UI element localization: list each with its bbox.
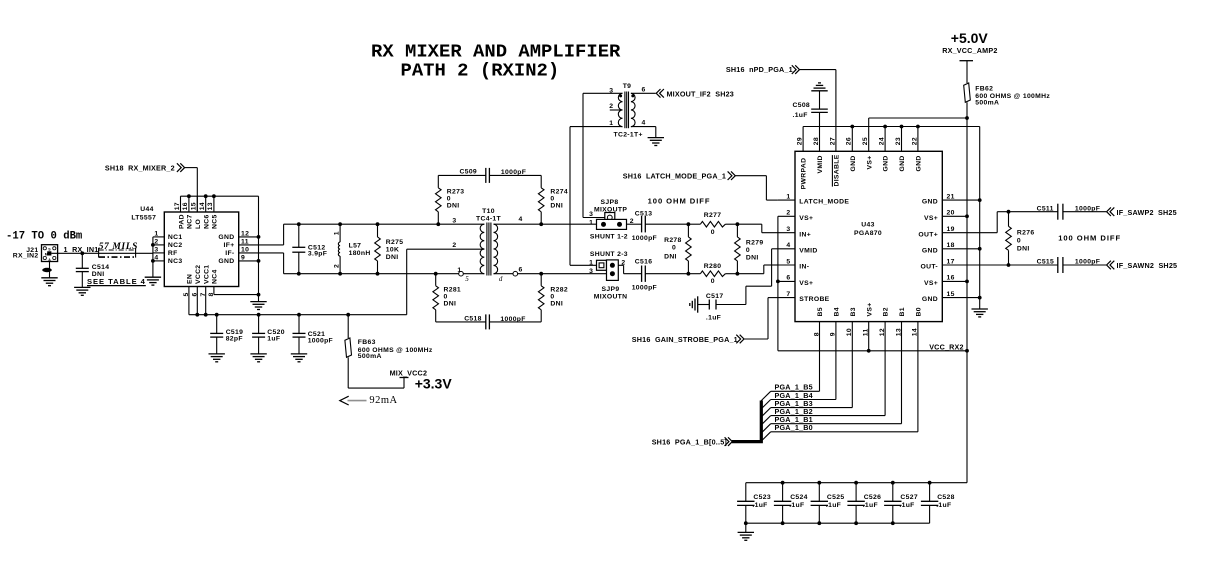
wire IF- jog <box>283 253 285 274</box>
U43 top pin numbers <box>797 137 919 145</box>
C521 label <box>308 331 333 345</box>
svg-text:NC3: NC3 <box>168 258 183 265</box>
svg-text:0: 0 <box>1017 238 1021 245</box>
junction vcc right <box>965 349 969 353</box>
ground at U43 right <box>972 309 988 317</box>
capacitor C526 <box>847 483 864 524</box>
svg-text:5: 5 <box>465 275 469 283</box>
net label PGA_1_B3 <box>775 399 813 408</box>
net label SH16 PGA_1_B[0..5] <box>652 438 727 447</box>
resistor R282 <box>538 274 544 322</box>
T10 primary winding <box>480 224 484 274</box>
junction R276 bottom <box>1007 263 1011 267</box>
capacitor C511 <box>1058 204 1063 220</box>
ground at C517 <box>690 296 698 312</box>
svg-text:C509: C509 <box>460 168 478 175</box>
svg-text:DNI: DNI <box>550 202 563 209</box>
svg-text:SHUNT 2-3: SHUNT 2-3 <box>590 251 628 258</box>
net label MIXOUT_IF2 SH23 <box>667 89 735 98</box>
svg-text:SH16 LATCH_MODE_PGA_1: SH16 LATCH_MODE_PGA_1 <box>623 171 726 180</box>
wire C509 top <box>438 174 541 176</box>
net label PGA_1_B4 <box>775 391 813 400</box>
T10 pad marks <box>465 275 503 283</box>
SJP9 shunt note <box>590 251 628 258</box>
U43 left pin names <box>799 199 849 304</box>
U43 bottom pin names <box>817 303 922 317</box>
capacitor C527 <box>884 483 901 524</box>
T10 secondary winding <box>494 224 498 274</box>
svg-text:15: 15 <box>191 202 198 210</box>
U44 top pin numbers <box>174 202 214 210</box>
svg-text:PGA_1_B0: PGA_1_B0 <box>775 423 813 432</box>
svg-text:3: 3 <box>589 268 593 275</box>
C527 label <box>899 494 918 509</box>
ground at U44 NC pins <box>145 277 161 285</box>
T9 phase dots <box>619 94 634 97</box>
transformer T10 refdes <box>476 208 501 222</box>
svg-text:GND: GND <box>850 155 857 171</box>
U43 right pin numbers <box>947 193 955 298</box>
svg-text:4: 4 <box>642 119 646 126</box>
resistor R277 <box>688 221 737 227</box>
R276 label <box>1017 230 1035 253</box>
wire OUT- line <box>1009 264 1058 266</box>
svg-text:.1uF: .1uF <box>863 502 878 509</box>
svg-text:1000pF: 1000pF <box>632 285 657 292</box>
R273 label <box>447 188 465 209</box>
svg-text:1: 1 <box>334 231 341 235</box>
jumper SJP9 shunt box <box>607 260 619 281</box>
net label VCC_RX2 <box>929 342 964 351</box>
bus PGA_1_B <box>732 401 761 442</box>
junction pin18 <box>978 247 982 251</box>
svg-text:29: 29 <box>797 137 804 145</box>
svg-text:T9: T9 <box>623 83 632 90</box>
svg-text:1: 1 <box>609 120 613 127</box>
net label PGA_1_B5 <box>775 383 813 392</box>
ferrite bead FB63 <box>345 315 352 388</box>
svg-text:.1uF: .1uF <box>826 502 841 509</box>
capacitor C525 <box>811 483 828 524</box>
junction pin14 <box>204 194 208 198</box>
svg-text:7: 7 <box>200 292 207 296</box>
junction cap bank gnd <box>744 521 748 525</box>
svg-text:10K: 10K <box>386 247 399 254</box>
net label SH18 RX_MIXER_2 <box>105 163 175 172</box>
svg-text:3: 3 <box>786 226 790 233</box>
svg-text:-17 TO 0 dBm: -17 TO 0 dBm <box>6 230 82 242</box>
U44 pin 1 stub <box>153 236 164 238</box>
junction L57 top <box>338 222 342 226</box>
ground at C514 <box>74 287 90 295</box>
svg-text:27: 27 <box>829 137 836 145</box>
svg-text:82pF: 82pF <box>226 335 243 342</box>
svg-text:GND: GND <box>916 155 923 171</box>
junction R281 top <box>434 272 438 276</box>
svg-text:26: 26 <box>846 137 853 145</box>
wire J21 shield to ground <box>49 262 51 278</box>
ground at C520 <box>250 354 266 362</box>
wire PGA_1_B3 <box>771 407 853 409</box>
svg-text:11: 11 <box>863 328 870 336</box>
capacitor C516 <box>642 266 689 282</box>
capacitor C514 <box>76 268 89 287</box>
capacitor C512 <box>292 224 305 274</box>
U44 bottom pin names <box>187 265 219 284</box>
svg-text:9: 9 <box>830 332 837 336</box>
C524 label <box>789 494 808 509</box>
svg-text:TC4-1T: TC4-1T <box>476 215 501 222</box>
C520 label <box>267 329 285 343</box>
T10 pin3 number <box>452 217 456 224</box>
svg-text:DNI: DNI <box>444 300 457 307</box>
U44 pin 1 number <box>154 230 158 237</box>
svg-text:B3: B3 <box>850 307 857 316</box>
net label IF_SAWN2 SH25 <box>1117 261 1178 270</box>
ground at J21 <box>41 278 57 286</box>
svg-text:VS+: VS+ <box>866 303 873 317</box>
svg-text:4: 4 <box>786 242 790 249</box>
svg-text:10: 10 <box>846 328 853 336</box>
off-page chevron LATCH_MODE <box>728 171 736 180</box>
L57 pin numbers <box>334 231 341 268</box>
U44 pin 4 number <box>154 254 158 261</box>
C528 label <box>936 494 955 509</box>
R281 label <box>444 286 462 307</box>
svg-text:PAD: PAD <box>178 214 185 229</box>
svg-text:MIXOUTN: MIXOUTN <box>594 293 628 300</box>
svg-text:24: 24 <box>879 137 886 145</box>
off-page chevron IF_SAWP2 <box>1107 207 1115 216</box>
svg-text:VS+: VS+ <box>866 156 873 170</box>
T9 pin2 stub <box>610 109 623 111</box>
wire PGA_1_B5 <box>771 390 820 392</box>
svg-text:11: 11 <box>241 238 249 245</box>
resistor R279 <box>735 224 741 274</box>
junction R274 bottom <box>539 222 543 226</box>
svg-text:DNI: DNI <box>550 300 563 307</box>
svg-text:L57: L57 <box>349 243 362 250</box>
T9 pin1 number <box>609 120 613 127</box>
U43 right pin names <box>918 199 938 304</box>
svg-text:1000pF: 1000pF <box>632 235 657 242</box>
svg-text:IF_SAWP2 SH25: IF_SAWP2 SH25 <box>1117 208 1177 217</box>
junction C512 bot <box>297 272 301 276</box>
wire LATCH_MODE <box>735 176 778 200</box>
svg-text:M: M <box>45 252 48 256</box>
C525 label <box>826 494 845 509</box>
U44 pin 12 number <box>241 230 249 237</box>
resistor R274 <box>538 175 544 224</box>
svg-text:SHUNT 1-2: SHUNT 1-2 <box>590 233 628 240</box>
U44 pin 4 stub <box>153 260 164 262</box>
svg-text:9: 9 <box>241 254 245 261</box>
svg-text:IN-: IN- <box>799 264 809 271</box>
svg-text:VS+: VS+ <box>924 215 938 222</box>
junction pin20 <box>965 214 969 218</box>
junction pin26 gnd <box>850 125 854 129</box>
jumper SJP9 refdes <box>594 286 628 301</box>
off-page chevron MIXOUT_IF2 <box>656 89 664 98</box>
svg-text:1: 1 <box>154 230 158 237</box>
wire U44 right gnd <box>258 196 260 301</box>
svg-text:C515: C515 <box>1037 259 1055 266</box>
R279 label <box>746 240 764 262</box>
net label PGA_1_B2 <box>775 407 813 416</box>
wire C514 branch <box>81 253 83 268</box>
svg-text:20: 20 <box>947 210 955 217</box>
svg-text:C517: C517 <box>706 293 724 300</box>
svg-text:12: 12 <box>241 230 249 237</box>
bus entry PGA_1_B5 <box>761 391 770 400</box>
svg-text:13: 13 <box>207 202 214 210</box>
wire PGA_1_B0 <box>771 431 918 433</box>
U44 top pin names <box>178 214 218 229</box>
svg-text:1000pF: 1000pF <box>501 169 526 176</box>
T9 pin4 number <box>642 119 646 126</box>
svg-text:MIXOUT_IF2 SH23: MIXOUT_IF2 SH23 <box>667 89 735 98</box>
junction FB63 <box>346 313 350 317</box>
C511 label <box>1037 205 1101 212</box>
svg-text:SJP8: SJP8 <box>601 199 619 206</box>
wire SJP8 to C513 <box>627 223 642 225</box>
svg-text:0: 0 <box>746 247 750 254</box>
T10 pin1 circle <box>459 271 464 276</box>
svg-text:7: 7 <box>786 291 790 298</box>
svg-text:OUT-: OUT- <box>920 264 938 271</box>
svg-text:.1uF: .1uF <box>752 502 767 509</box>
svg-text:C513: C513 <box>635 210 653 217</box>
wire to IF_SAWN2 <box>1063 264 1106 266</box>
wire IF bottom rail <box>284 273 459 275</box>
junction R282 top <box>539 272 543 276</box>
U44 pin 9 stub <box>239 260 259 262</box>
svg-text:VMID: VMID <box>817 155 824 173</box>
svg-text:IF+: IF+ <box>224 242 235 249</box>
svg-text:2: 2 <box>154 238 158 245</box>
junction pin23 gnd <box>900 125 904 129</box>
DISABLE overline <box>831 155 833 187</box>
C518 label <box>464 315 526 323</box>
T9 core <box>625 92 629 129</box>
svg-text:28: 28 <box>813 137 820 145</box>
amplifier U43 body <box>795 151 942 321</box>
wire IF+ jog <box>283 224 285 245</box>
U44 pin 3 stub <box>153 252 164 254</box>
svg-text:T10: T10 <box>482 208 495 215</box>
svg-text:1uF: 1uF <box>267 335 280 342</box>
connector J21 <box>42 245 58 262</box>
svg-text:1000pF: 1000pF <box>500 316 525 323</box>
svg-text:17: 17 <box>174 202 181 210</box>
wire IN+ to U43 <box>737 224 778 233</box>
net label RX_VCC_AMP2 <box>942 46 997 55</box>
U44 pin 12 stub <box>239 236 259 238</box>
svg-text:21: 21 <box>947 193 955 200</box>
junction pin21 <box>978 198 982 202</box>
note 100 OHM DIFF right <box>1058 233 1121 242</box>
resistor R280 <box>688 271 737 277</box>
svg-text:3: 3 <box>452 217 456 224</box>
capacitor C518 <box>486 314 490 329</box>
svg-text:VCC2: VCC2 <box>195 265 202 284</box>
net label IF_SAWP2 SH25 <box>1117 208 1177 217</box>
svg-text:OUT+: OUT+ <box>918 231 938 238</box>
svg-text:IN+: IN+ <box>799 231 811 238</box>
svg-text:16: 16 <box>182 202 189 210</box>
wire U44 top gnd tie <box>181 195 259 197</box>
svg-text:GND: GND <box>883 155 890 171</box>
svg-text:3.9pF: 3.9pF <box>308 250 327 257</box>
svg-text:1: 1 <box>786 193 790 200</box>
C514 value label <box>92 264 110 278</box>
T10 pin1 wire <box>463 273 484 275</box>
junction R278 top <box>687 222 691 226</box>
svg-text:SH16 PGA_1_B[0..5]: SH16 PGA_1_B[0..5] <box>652 438 727 447</box>
wire VS+ left drop <box>777 216 779 350</box>
C523 label <box>752 494 771 509</box>
svg-text:PGA870: PGA870 <box>854 230 882 237</box>
capacitor C521 <box>293 315 306 354</box>
svg-text:DNI: DNI <box>664 254 677 261</box>
svg-text:+3.3V: +3.3V <box>415 375 453 391</box>
wire cap bank top rail <box>746 482 967 484</box>
net label PGA_1_B0 <box>775 423 813 432</box>
off-page chevron IF_SAWN2 <box>1107 261 1115 270</box>
svg-text:FB63: FB63 <box>358 339 376 346</box>
U44 right pin names <box>218 234 234 265</box>
svg-text:17: 17 <box>947 258 955 265</box>
FB62 label <box>975 85 1050 106</box>
junction C521 <box>297 313 301 317</box>
junction R276 top <box>1007 210 1011 214</box>
U44 pin 10 number <box>241 246 249 253</box>
jumper SJP8 pin3 square <box>605 213 615 223</box>
wire GND right drop <box>979 127 981 310</box>
SJP8 pin labels <box>589 211 634 226</box>
capacitor C519 <box>210 315 223 354</box>
svg-text:LATCH_MODE: LATCH_MODE <box>799 199 849 206</box>
bus entry PGA_1_B2 <box>761 416 770 425</box>
svg-text:GND: GND <box>922 199 938 206</box>
svg-text:LT5557: LT5557 <box>131 214 156 221</box>
svg-text:DNI: DNI <box>746 255 759 262</box>
L57 label <box>349 243 371 258</box>
svg-text:C518: C518 <box>464 315 482 322</box>
supply label +3.3V <box>415 375 453 391</box>
svg-text:1: 1 <box>589 220 593 227</box>
svg-text:C526: C526 <box>864 494 882 501</box>
svg-text:15: 15 <box>947 291 955 298</box>
junction cap8 top <box>928 481 932 485</box>
svg-text:23: 23 <box>895 137 902 145</box>
title text <box>371 41 621 82</box>
svg-text:R279: R279 <box>746 240 764 247</box>
wire PGA_1_B2 <box>771 415 885 417</box>
svg-text:VCC_RX2: VCC_RX2 <box>929 342 964 351</box>
inductor L57 <box>338 224 340 274</box>
T10 pin6 number <box>519 266 523 273</box>
svg-text:U44: U44 <box>140 206 153 213</box>
wire to MIX_VCC2 port <box>348 378 404 389</box>
SJP8 shunt note <box>590 233 628 240</box>
junction cap4 top <box>781 481 785 485</box>
svg-text:EN: EN <box>187 274 194 284</box>
net label PGA_1_B1 <box>775 415 813 424</box>
T10 pin6 wire <box>494 273 607 275</box>
svg-text:0: 0 <box>447 195 451 202</box>
svg-text:12: 12 <box>879 328 886 336</box>
U44 pin 9 number <box>241 254 245 261</box>
R278 label <box>664 237 682 261</box>
svg-text:d: d <box>499 275 503 283</box>
junction pin13 <box>212 194 216 198</box>
svg-text:VS+: VS+ <box>924 280 938 287</box>
svg-text:A: A <box>48 258 51 262</box>
svg-text:C528: C528 <box>937 494 955 501</box>
svg-text:500mA: 500mA <box>358 353 382 360</box>
J21 mounting blob <box>42 268 52 272</box>
U43 right pin wires <box>942 200 1008 298</box>
svg-text:8: 8 <box>813 332 820 336</box>
T9 pin6 wire <box>631 92 656 94</box>
junction pin22 gnd <box>916 125 920 129</box>
svg-text:B2: B2 <box>883 307 890 316</box>
svg-text:2: 2 <box>452 242 456 249</box>
svg-text:NC2: NC2 <box>168 242 183 249</box>
svg-text:R281: R281 <box>444 286 462 293</box>
net label SH16 GAIN_STROBE_PGA_1 <box>632 335 738 344</box>
svg-text:SH16 nPD_PGA_1: SH16 nPD_PGA_1 <box>726 65 793 74</box>
svg-text:GND: GND <box>899 155 906 171</box>
svg-text:R274: R274 <box>550 188 568 195</box>
svg-text:DNI: DNI <box>386 254 399 261</box>
svg-text:DNI: DNI <box>1017 246 1030 253</box>
wire U44 NC pins tie <box>152 237 154 277</box>
T9 pin6 number <box>642 87 646 94</box>
T9 type label <box>614 132 643 139</box>
U44 pin 10 stub (IF-) <box>239 252 284 254</box>
bus entry PGA_1_B1 <box>761 424 770 433</box>
note 100 OHM DIFF left <box>648 196 711 205</box>
junction pin16 <box>187 194 191 198</box>
T9 primary winding <box>618 93 622 126</box>
svg-text:NC5: NC5 <box>212 214 219 229</box>
svg-text:PATH 2 (RXIN2): PATH 2 (RXIN2) <box>401 60 560 82</box>
U43 top pin names <box>801 154 923 189</box>
svg-text:GND: GND <box>218 258 234 265</box>
svg-text:PWRPAD: PWRPAD <box>801 158 808 190</box>
svg-text:DNI: DNI <box>447 202 460 209</box>
svg-text:C525: C525 <box>827 494 845 501</box>
ground at C521 <box>291 354 307 362</box>
svg-text:14: 14 <box>199 202 206 210</box>
U44 pin 11 number <box>241 238 249 245</box>
U44 pin 11 stub (IF+) <box>239 244 284 246</box>
U44 pin 8 stub (NC4) <box>214 287 259 295</box>
junction R279 top <box>736 222 740 226</box>
svg-text:R278: R278 <box>664 237 682 244</box>
wire nPD to DISABLE <box>800 69 836 71</box>
capacitor C524 <box>774 483 791 524</box>
junction cap6 bottom <box>854 521 858 525</box>
U43 bottom pin numbers <box>813 328 918 336</box>
svg-text:C523: C523 <box>753 494 771 501</box>
U44 pin 3 number <box>154 246 158 253</box>
svg-text:B4: B4 <box>834 307 841 316</box>
junction cap7 top <box>891 481 895 485</box>
wire VCC_RX2 rail <box>778 350 967 352</box>
